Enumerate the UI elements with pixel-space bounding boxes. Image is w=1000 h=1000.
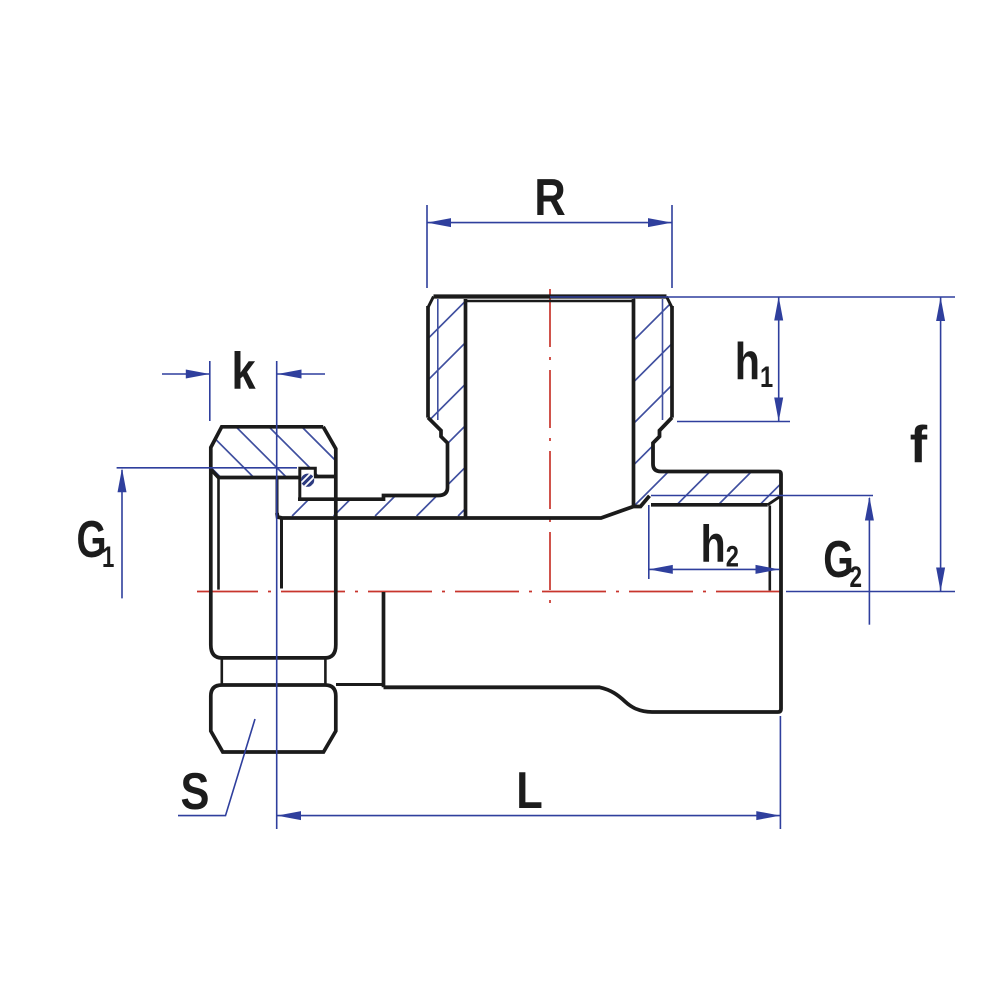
stud left crest	[426, 306, 430, 418]
svg-text:2: 2	[849, 560, 862, 594]
body inner top line	[466, 300, 634, 302]
G2 bore line	[651, 503, 768, 507]
hatching nut	[180, 272, 420, 709]
label S	[181, 762, 210, 821]
svg-text:f: f	[910, 416, 928, 474]
dimension G1 extension line	[117, 467, 297, 469]
stud left profile to body top	[298, 418, 448, 500]
dimension h1 line	[778, 297, 780, 422]
nut outline upper	[211, 427, 336, 658]
tube socket end face lower	[280, 518, 283, 589]
shared extension line k/L	[276, 361, 278, 829]
svg-text:1: 1	[102, 540, 114, 574]
dimension h2 line	[649, 568, 780, 570]
body bore line	[277, 496, 650, 518]
dimension k arrows	[162, 373, 325, 375]
label h2	[701, 514, 739, 573]
stud right crest	[670, 306, 674, 418]
dimension f line	[940, 297, 942, 592]
thread root line left (thin)	[437, 299, 439, 420]
nut right seat line	[314, 475, 337, 479]
hatching body right wall and stub	[417, 276, 1000, 516]
nut seal seat line	[211, 470, 300, 478]
stud right profile, stub outline, bottom outline	[384, 418, 782, 712]
svg-text:R: R	[534, 168, 565, 227]
nut hex band verticals	[222, 659, 326, 684]
h1 bottom extension line	[677, 421, 790, 423]
hatching body left wall	[85, 276, 782, 516]
stud left bore wall	[464, 299, 468, 518]
nut hex band bottom + lower outline	[211, 685, 336, 752]
thread root line right (thin)	[662, 299, 664, 420]
label G1	[77, 509, 115, 574]
stud right bore wall	[632, 299, 636, 507]
body neck bottom line	[336, 683, 384, 686]
dimension R extension lines	[427, 205, 672, 288]
dimension L line	[277, 815, 780, 817]
G2 bore end edge	[768, 506, 771, 591]
svg-text:S: S	[181, 762, 210, 821]
label f	[910, 416, 928, 474]
O-ring	[301, 474, 314, 487]
label R	[534, 168, 565, 227]
dimension G2 line	[868, 498, 870, 625]
G2 bore end chamfer	[768, 496, 781, 505]
dimension k extension line left	[209, 361, 211, 421]
dimension R line	[427, 222, 672, 224]
label k	[232, 342, 256, 401]
dimension G1 line	[121, 470, 123, 598]
label h1	[735, 331, 773, 393]
f bottom extension line	[786, 591, 955, 593]
h1/f top extension line	[550, 296, 955, 298]
nut inner sleeve edge	[217, 478, 220, 590]
h2 left extension line	[648, 505, 650, 579]
centerline vertical (red)	[549, 289, 551, 605]
svg-text:k: k	[232, 342, 256, 401]
label G2	[823, 530, 862, 594]
label L	[516, 761, 543, 820]
body top face	[434, 294, 667, 298]
body top chamfers	[428, 297, 672, 308]
body left end face (lower half)	[382, 592, 386, 687]
tube end face upper	[276, 478, 279, 515]
svg-text:L: L	[516, 761, 543, 820]
L right extension line	[779, 716, 781, 829]
centerline horizontal (red)	[197, 591, 780, 593]
O-ring groove	[300, 468, 316, 499]
G2 extension line	[651, 495, 873, 497]
S leader line	[178, 719, 255, 816]
